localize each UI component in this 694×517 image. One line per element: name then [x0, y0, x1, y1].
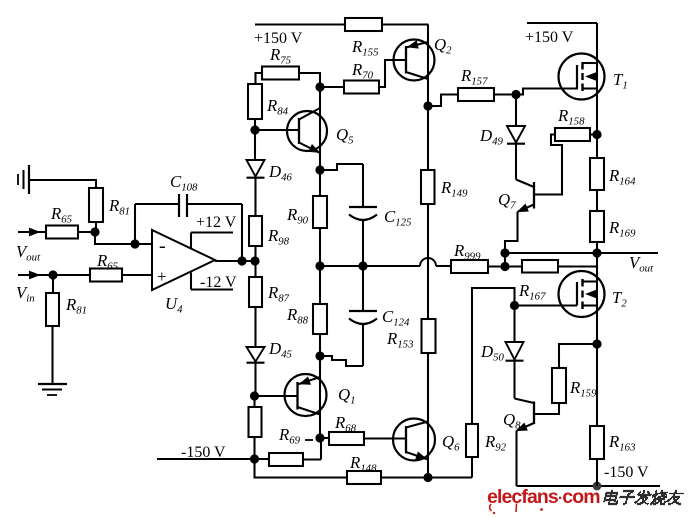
- svg-text:Vout: Vout: [16, 242, 41, 264]
- svg-text:R92: R92: [484, 432, 507, 454]
- svg-text:-150 V: -150 V: [604, 464, 649, 481]
- svg-text:elecfans·com: elecfans·com: [487, 486, 600, 508]
- svg-text:-150 V: -150 V: [181, 444, 226, 461]
- svg-text:C124: C124: [382, 307, 410, 329]
- svg-text:T1: T1: [613, 70, 628, 92]
- svg-text:Q2: Q2: [434, 35, 452, 57]
- svg-text:R164: R164: [608, 166, 636, 188]
- svg-text:Q8: Q8: [503, 410, 521, 432]
- svg-text:Q1: Q1: [338, 385, 356, 407]
- svg-text:R81: R81: [65, 295, 87, 317]
- svg-text:R153: R153: [386, 329, 414, 351]
- svg-text:+: +: [157, 267, 167, 286]
- svg-text:R69: R69: [278, 425, 301, 447]
- svg-text:R159: R159: [569, 378, 597, 400]
- svg-text:R87: R87: [267, 283, 290, 305]
- svg-text:R158: R158: [557, 106, 585, 128]
- svg-text:Vin: Vin: [16, 283, 35, 305]
- svg-text:Q6: Q6: [442, 432, 460, 454]
- svg-text:R84: R84: [266, 96, 289, 118]
- svg-text:R999: R999: [453, 241, 481, 263]
- svg-text:R149: R149: [440, 178, 468, 200]
- svg-text:Q5: Q5: [336, 125, 354, 147]
- svg-text:+12 V: +12 V: [196, 214, 237, 231]
- svg-text:R81: R81: [108, 196, 130, 218]
- svg-text:R70: R70: [351, 60, 374, 82]
- svg-text:R68: R68: [334, 413, 357, 435]
- svg-text:R90: R90: [286, 205, 309, 227]
- svg-text:R163: R163: [608, 432, 636, 454]
- svg-text:D45: D45: [268, 339, 293, 361]
- svg-text:R157: R157: [460, 66, 488, 88]
- svg-text:D49: D49: [479, 126, 504, 148]
- svg-text:R98: R98: [267, 226, 290, 248]
- svg-text:D46: D46: [268, 162, 293, 184]
- svg-text:D50: D50: [480, 342, 505, 364]
- svg-text:R88: R88: [286, 305, 309, 327]
- svg-text:R75: R75: [269, 45, 292, 67]
- svg-text:R167: R167: [518, 281, 546, 303]
- svg-text:+150 V: +150 V: [525, 29, 574, 46]
- svg-text:Q7: Q7: [498, 190, 516, 212]
- svg-text:C125: C125: [384, 207, 412, 229]
- svg-text:R155: R155: [351, 37, 379, 59]
- svg-text:R169: R169: [608, 218, 636, 240]
- svg-text:-12 V: -12 V: [200, 274, 237, 291]
- svg-text:C108: C108: [170, 172, 198, 194]
- svg-text:R148: R148: [349, 453, 377, 475]
- svg-text:-: -: [159, 235, 166, 257]
- svg-text:Vout: Vout: [629, 253, 654, 275]
- svg-text:R65: R65: [50, 204, 73, 226]
- svg-text:T2: T2: [612, 288, 627, 310]
- svg-text:U4: U4: [165, 294, 183, 316]
- svg-text:R65: R65: [96, 251, 119, 273]
